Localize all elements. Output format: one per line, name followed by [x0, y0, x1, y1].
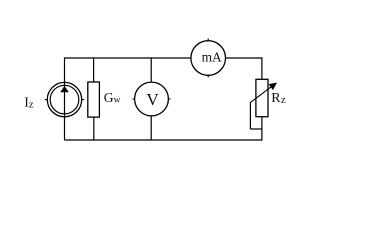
wire Rz wiper vertical	[249, 102, 251, 129]
wire Rz wiper horizontal jog	[250, 128, 262, 130]
resistor Gw (box)	[88, 82, 100, 117]
wire Gw branch top	[93, 57, 95, 82]
wire Rz bottom lead	[261, 117, 263, 141]
wire V branch top	[150, 57, 152, 82]
voltmeter V	[133, 82, 171, 116]
wire top left segment (node top rail)	[64, 57, 191, 59]
wire Gw branch bottom	[93, 117, 95, 140]
wire top right segment	[226, 57, 263, 59]
svg-text:Gw: Gw	[104, 90, 121, 106]
wire bottom rail	[64, 139, 262, 141]
svg-text:mA: mA	[202, 50, 222, 65]
wire right branch vertical	[261, 57, 263, 79]
svg-text:V: V	[146, 90, 159, 109]
wire V branch bottom	[150, 116, 152, 140]
wire left branch vertical (through current source)	[64, 57, 66, 140]
current source Iz symbol	[45, 82, 84, 116]
resistor Rz (adjustable, box with arrow)	[250, 79, 277, 116]
milliammeter mA	[191, 39, 226, 78]
svg-text:Iz: Iz	[24, 96, 34, 111]
svg-text:Rz: Rz	[271, 91, 286, 106]
